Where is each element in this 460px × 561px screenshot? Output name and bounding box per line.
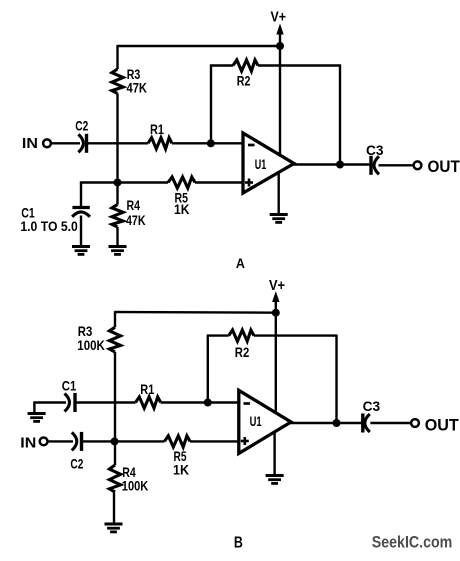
- label C3 (circuit A): [366, 142, 384, 158]
- wire: V+ rail horizontal (circuit A): [118, 45, 281, 47]
- resistor R5 1K (circuit A): [168, 177, 195, 188]
- label R2 (circuit A): [237, 73, 251, 89]
- svg-text:R2: R2: [237, 73, 251, 89]
- svg-text:C2: C2: [70, 456, 83, 472]
- wire: op-amp output to C3 (circuit A): [293, 163, 371, 165]
- wire: rail corner down to R3 (circuit B): [114, 311, 116, 327]
- label IN (circuit B): [20, 434, 36, 451]
- ground symbol below op-amp (circuit A): [270, 215, 288, 223]
- node: V+ junction dot (circuit B): [272, 309, 280, 317]
- svg-text:U1: U1: [255, 156, 267, 172]
- wire: ground corner to C1 (circuit B): [34, 403, 66, 413]
- label C1 (circuit A): [21, 205, 35, 221]
- node: bias junction dot (circuit B): [111, 437, 119, 445]
- wire: R1 to inverting node (circuit A): [172, 142, 243, 144]
- terminal OUT circle (circuit A): [414, 161, 422, 169]
- svg-text:V+: V+: [269, 277, 285, 294]
- svg-text:U1: U1: [250, 413, 262, 429]
- label IN (circuit A): [22, 135, 38, 152]
- label 1K of R5 (circuit B): [173, 462, 189, 478]
- wire: R3 bottom down to input node, crosses upper wire (circuit B): [114, 352, 116, 441]
- label 1K of R5 (circuit A): [174, 201, 190, 217]
- resistor R5 1K (circuit B): [165, 436, 191, 447]
- wire: IN to C2 (circuit B): [48, 440, 73, 442]
- capacitor C1 (circuit B): [65, 393, 76, 412]
- wire: V+ rail horizontal (circuit B): [115, 311, 276, 314]
- label R1 (circuit A): [150, 121, 164, 137]
- svg-text:B: B: [234, 534, 243, 551]
- label R1 (circuit B): [140, 381, 154, 397]
- label C3 (circuit B): [363, 398, 381, 414]
- node: V+ junction dot (circuit A): [276, 42, 284, 50]
- resistor R1 (circuit A): [148, 138, 172, 149]
- wire: C1 to R1 (circuit B): [75, 401, 136, 403]
- resistor R3 100K (circuit B): [109, 327, 120, 352]
- wire: C2 to R1 (circuit A): [87, 142, 149, 144]
- resistor R4 100K (circuit B): [109, 465, 120, 492]
- ground symbol below op-amp (circuit B): [266, 476, 284, 484]
- svg-text:100K: 100K: [122, 477, 149, 493]
- ground stem below op-amp (circuit B): [273, 432, 275, 477]
- resistor R2 (circuit A): [233, 60, 258, 71]
- ground symbol left of C1 (circuit B): [28, 414, 46, 422]
- wire: R3 bottom down to lower node, crosses input wire (circuit A): [116, 94, 118, 183]
- label R4 (circuit B): [122, 464, 136, 480]
- capacitor C2 (circuit A): [78, 134, 86, 153]
- op-amp U1 triangle (circuit B): [239, 390, 291, 453]
- label R3 (circuit B): [78, 323, 93, 339]
- node: output junction dot (circuit A): [336, 161, 344, 169]
- wire: V+ down into op-amp, crosses R2 wire (circuit A): [279, 46, 281, 157]
- label C2 (circuit A): [75, 118, 88, 134]
- wire: R4 bottom stem (circuit B): [113, 492, 115, 523]
- svg-text:1K: 1K: [173, 462, 189, 478]
- label C2 (circuit B): [70, 456, 83, 472]
- resistor R4 47K (circuit A): [112, 205, 123, 228]
- node: bias junction dot (circuit A): [114, 179, 122, 187]
- resistor R1 (circuit B): [136, 397, 161, 408]
- capacitor C1 vertical (circuit A): [72, 208, 90, 217]
- wire: feedback left leg (circuit B): [207, 336, 209, 403]
- label A (section marker): [236, 255, 245, 271]
- op-amp minus input marker (circuit B): [244, 402, 251, 405]
- svg-text:SeekIC.com: SeekIC.com: [372, 533, 453, 552]
- svg-text:R1: R1: [140, 381, 154, 397]
- op-amp plus input marker (circuit A): [245, 179, 253, 187]
- wire: R5 to non-inverting input (circuit A): [195, 181, 243, 183]
- node: inverting input junction dot (circuit B): [204, 399, 212, 407]
- terminal OUT circle (circuit B): [411, 419, 419, 427]
- svg-text:1K: 1K: [174, 201, 190, 217]
- wire: R4 top stem (circuit A): [116, 183, 118, 205]
- ground below C1 (circuit A): [72, 247, 90, 255]
- label C1 (circuit B): [62, 377, 77, 393]
- svg-text:C2: C2: [75, 118, 88, 134]
- wire: feedback right leg down to output (circuit A): [339, 64, 341, 164]
- wire: feedback top left segment (circuit B): [207, 334, 229, 336]
- wire: R1 to inverting node (circuit B): [161, 401, 239, 403]
- svg-text:IN: IN: [22, 135, 38, 152]
- V+ arrow terminal (circuit B): [272, 291, 279, 313]
- svg-text:100K: 100K: [77, 337, 105, 353]
- watermark SeekIC.com: [372, 533, 453, 552]
- svg-text:R1: R1: [150, 121, 164, 137]
- wire: R4 bottom stem (circuit A): [116, 227, 118, 246]
- label U1 (circuit A): [255, 156, 267, 172]
- capacitor C3 (circuit B): [363, 414, 370, 433]
- svg-text:OUT: OUT: [428, 157, 460, 176]
- wire: op-amp output to C3 (circuit B): [290, 422, 363, 424]
- label 100K of R4 (circuit B): [122, 477, 149, 493]
- svg-text:R4: R4: [127, 197, 141, 213]
- node: inverting input junction dot (circuit A): [207, 139, 215, 147]
- svg-text:OUT: OUT: [425, 416, 460, 435]
- svg-text:V+: V+: [271, 8, 287, 25]
- svg-text:C3: C3: [363, 398, 381, 414]
- wire: C2 to R5 (circuit B): [82, 440, 165, 442]
- wire: C3 to OUT terminal (circuit A): [379, 164, 414, 166]
- svg-text:47K: 47K: [126, 212, 146, 228]
- op-amp plus input marker (circuit B): [241, 437, 249, 445]
- V+ label (circuit A): [271, 8, 287, 25]
- terminal IN circle (circuit B): [40, 438, 48, 446]
- wire: feedback top right segment (circuit A): [258, 64, 340, 66]
- label R4 (circuit A): [127, 197, 141, 213]
- svg-text:A: A: [236, 255, 245, 271]
- label 47K of R4 (circuit A): [126, 212, 146, 228]
- label R2 (circuit B): [235, 344, 250, 360]
- node: output junction dot (circuit B): [333, 419, 341, 427]
- resistor R2 (circuit B): [229, 330, 254, 341]
- op-amp minus input marker (circuit A): [248, 144, 255, 147]
- label OUT (circuit B): [425, 416, 460, 435]
- svg-text:1.0 TO 5.0: 1.0 TO 5.0: [20, 218, 78, 234]
- svg-text:47K: 47K: [127, 80, 148, 96]
- wire: IN to C2 (circuit A): [52, 142, 81, 144]
- ground stem below op-amp (circuit A): [278, 172, 280, 215]
- wire: lower bias wire from C1 corner to R5 (circuit A): [81, 183, 168, 207]
- label U1 (circuit B): [250, 413, 262, 429]
- capacitor C2 (circuit B): [72, 432, 82, 451]
- wire: C1 bottom stem (circuit A): [80, 216, 82, 247]
- wire: feedback right leg down to output (circuit B): [335, 335, 337, 424]
- wire: R4 top stem (circuit B): [114, 441, 116, 465]
- label R5 (circuit B): [174, 448, 187, 464]
- wire: feedback top right segment (circuit B): [254, 334, 337, 336]
- label 47K of R3 (circuit A): [127, 80, 148, 96]
- V+ label (circuit B): [269, 277, 285, 294]
- terminal IN circle (circuit A): [43, 139, 51, 147]
- label R3 (circuit A): [127, 66, 141, 82]
- wire: C3 to OUT terminal (circuit B): [370, 422, 410, 424]
- label OUT (circuit A): [428, 157, 460, 176]
- wire: V+ down into op-amp, crosses R2 wire (circuit B): [275, 313, 277, 414]
- label 100K of R3 (circuit B): [77, 337, 105, 353]
- svg-text:C1: C1: [62, 377, 77, 393]
- label B (section marker): [234, 534, 243, 551]
- ground below R4 (circuit B): [105, 524, 123, 532]
- wire: R5 to non-inverting input (circuit B): [190, 440, 239, 442]
- capacitor C3 (circuit A): [371, 156, 379, 175]
- wire: V+ rail down to R3 (circuit A): [116, 45, 118, 69]
- V+ arrow terminal (circuit A): [276, 24, 283, 47]
- wire: feedback left leg up from inverting node (circuit A): [210, 66, 212, 144]
- label R5 (circuit A): [175, 189, 189, 205]
- wire: feedback top left segment (circuit A): [210, 64, 233, 66]
- label 1.0 TO 5.0 of C1 (circuit A): [20, 218, 78, 234]
- svg-text:IN: IN: [20, 434, 36, 451]
- op-amp U1 triangle (circuit A): [243, 133, 294, 193]
- resistor R3 47K (circuit A): [112, 69, 123, 94]
- svg-text:R2: R2: [235, 344, 250, 360]
- svg-text:C3: C3: [366, 142, 384, 158]
- ground below R4 (circuit A): [109, 247, 127, 255]
